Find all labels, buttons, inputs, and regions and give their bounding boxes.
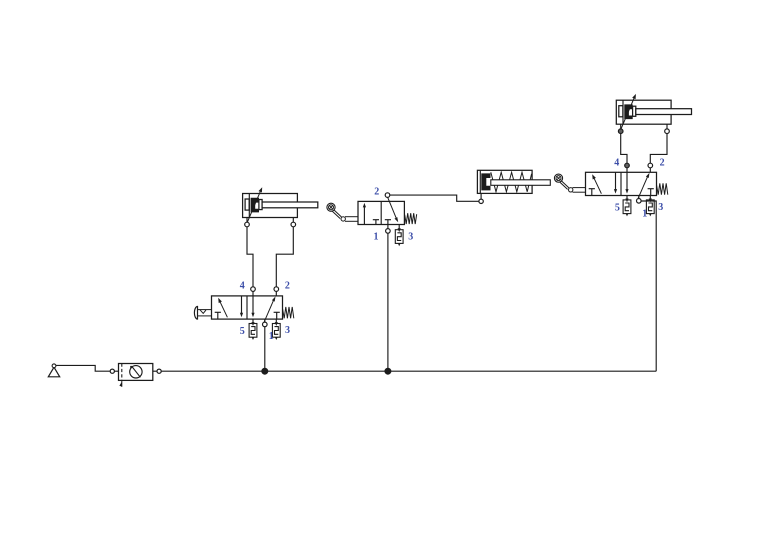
valve V3: right position flow path: [385, 197, 398, 224]
valve V1: 5/2-way valve body: [212, 296, 283, 319]
cylinder C2: piston rod: [633, 106, 692, 116]
wire: source to service unit: [56, 365, 110, 371]
valve V1 port 3 silencer: [272, 322, 280, 340]
valve V1: left position flow paths: [215, 296, 243, 319]
wire: V3 port 1 to supply bus: [387, 234, 389, 372]
cylinder C3: piston (black): [481, 173, 490, 190]
svg-text:1: 1: [269, 331, 274, 342]
cylinder C1: right port stub: [292, 218, 294, 223]
valve V2 port 3 silencer: [646, 199, 654, 217]
valve V1: port 1 stub: [264, 319, 266, 322]
svg-text:2: 2: [285, 281, 290, 292]
wire: V3 port 2 to cylinder C3: [390, 195, 479, 201]
junction node under valve V1: [262, 368, 268, 374]
valve V2: port 4 stub: [626, 168, 628, 173]
svg-text:3: 3: [408, 232, 413, 243]
cylinder C1: right port circle: [291, 222, 296, 227]
cylinder C1: double-acting cylinder body: [243, 194, 298, 218]
valve V1: return spring: [283, 307, 294, 318]
junction node under valve V3: [385, 368, 391, 374]
cylinder C3: port circle: [479, 199, 483, 203]
cylinder C2: left port stub: [620, 124, 622, 129]
valve V1: port 2 stub: [275, 291, 277, 296]
valve V2: port 2 stub: [649, 168, 651, 173]
cylinder C1: left port circle: [245, 222, 250, 227]
cylinder C3: single-acting cylinder body: [477, 170, 532, 193]
cylinder C3: port stub: [480, 193, 482, 199]
wire: C1 left port to V1 port 4: [247, 227, 253, 287]
valve V2: port 2 circle: [648, 163, 653, 168]
valve V3: roller lever actuator: [327, 203, 358, 221]
cylinder C1: piston (black): [251, 198, 259, 213]
valve V1: port 1 circle: [263, 322, 268, 327]
valve V1: right position flow paths: [251, 296, 279, 322]
valve V1 port 5 silencer: [249, 322, 257, 340]
service unit: connection to outlet: [153, 370, 157, 372]
valve V2: roller lever actuator: [554, 174, 585, 192]
valve V3: return spring: [405, 213, 417, 224]
valve V1: port 5 stub: [252, 319, 254, 323]
valve V1: port 4 circle: [251, 287, 256, 292]
cylinder C1: piston rod: [259, 200, 318, 210]
valve V2: 5/2-way valve body: [586, 172, 657, 195]
svg-text:4: 4: [614, 158, 619, 169]
valve V3: left position flow path: [363, 203, 379, 225]
valve V2: port 4 circle: [625, 163, 630, 168]
service unit: drain line: [119, 380, 121, 386]
service unit outlet port circle: [157, 369, 161, 373]
cylinder C1: cushioning adjust arrow: [247, 187, 262, 222]
valve V2: port 5 stub: [626, 196, 628, 200]
svg-text:3: 3: [658, 202, 663, 213]
valve V1: pushbutton actuator: [194, 306, 211, 320]
valve V3 port 3 silencer: [395, 228, 403, 246]
svg-text:1: 1: [374, 231, 379, 242]
cylinder C2: piston (black): [624, 104, 632, 119]
valve V2: port 1 stub: [638, 196, 640, 199]
wire: main supply bus: [161, 370, 656, 372]
service unit: shut-off circle with diagonal: [130, 366, 142, 378]
valve V2: return spring: [657, 183, 668, 194]
wire: C2 right port to V2 port 2: [650, 133, 667, 163]
valve V2: port 1 circle: [637, 199, 642, 204]
cylinder C3: piston rod: [491, 180, 551, 186]
wire: V1 port 1 to supply bus: [264, 327, 266, 372]
valve V2 port 5 silencer: [623, 199, 631, 217]
valve V1: port 3 stub: [275, 319, 277, 323]
valve V3: port 3 stub: [398, 225, 400, 230]
cylinder C2: right port circle: [665, 129, 670, 134]
valve V2: port 3 stub: [649, 196, 651, 200]
svg-text:2: 2: [374, 186, 379, 197]
cylinder C2: left port circle: [618, 129, 623, 134]
wire: C2 left port to V2 port 4: [621, 133, 627, 163]
svg-text:2: 2: [660, 158, 665, 169]
service unit inlet port circle: [110, 369, 114, 373]
svg-text:1: 1: [642, 209, 647, 220]
svg-text:5: 5: [240, 326, 245, 337]
cylinder C3: return spring: [491, 172, 532, 192]
svg-text:5: 5: [615, 203, 620, 214]
cylinder C2: double-acting cylinder body: [616, 100, 671, 124]
valve V1: port 4 stub: [252, 291, 254, 296]
valve V2: right position flow paths: [625, 172, 653, 198]
svg-text:4: 4: [240, 281, 245, 292]
valve V3: port 2 circle: [385, 193, 390, 198]
wire: V2 port 1 to supply bus riser: [641, 201, 656, 371]
cylinder C2: right port stub: [666, 124, 668, 129]
wire: C1 right port to V1 port 2: [276, 227, 293, 287]
valve V3: port 1 stub: [387, 225, 389, 229]
valve V3: 3/2-way valve body: [358, 201, 404, 224]
compressed air source symbol: [48, 364, 59, 377]
valve V1: port 2 circle: [274, 287, 279, 292]
valve V3: port 1 circle: [386, 229, 391, 234]
service unit (filter/regulator) box: [119, 364, 153, 381]
svg-text:3: 3: [285, 325, 290, 336]
cylinder C1: left port stub: [246, 218, 248, 223]
cylinder C2: cushioning adjust arrow: [621, 94, 636, 129]
service unit: connection to box: [114, 370, 118, 372]
valve V2: left position flow paths: [589, 172, 617, 195]
